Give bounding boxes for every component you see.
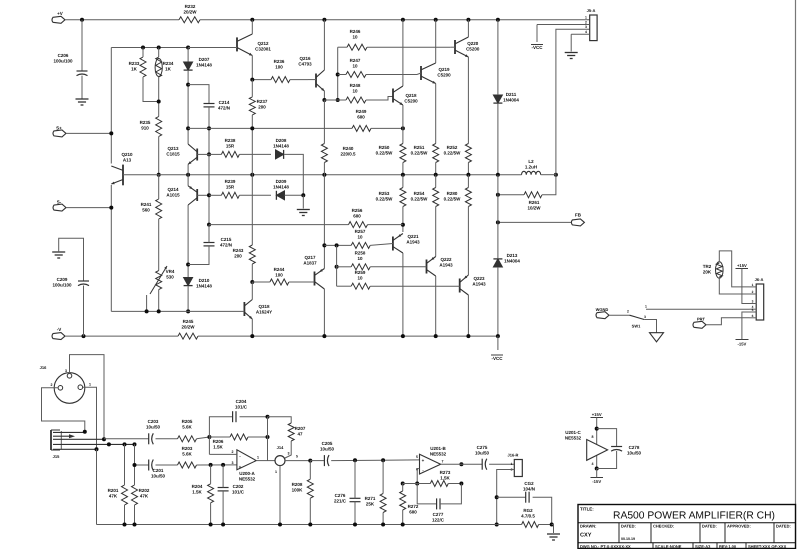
- wire C204 right: [240, 416, 268, 418]
- junction feedback rail: [250, 173, 254, 177]
- junction output rail: [466, 173, 470, 177]
- junction bottom rail: [401, 523, 405, 527]
- svg-text:A1015: A1015: [166, 193, 180, 198]
- resistor R232: [179, 17, 200, 23]
- svg-text:R261: R261: [529, 200, 540, 205]
- wire R248 right: [366, 97, 393, 101]
- svg-text:100K: 100K: [292, 488, 304, 493]
- svg-text:C1815: C1815: [166, 152, 180, 157]
- terminal +V: [52, 16, 65, 23]
- resistor R252: [465, 144, 471, 163]
- connector J15 prong 3: [53, 443, 135, 445]
- junction y48: [157, 46, 161, 50]
- junction R249 row: [401, 126, 405, 130]
- svg-text:+V: +V: [57, 11, 63, 16]
- svg-text:J6-A: J6-A: [755, 277, 764, 282]
- junction -V rail: [434, 334, 438, 338]
- svg-text:1.5K: 1.5K: [440, 476, 450, 481]
- wire -15V J6: [742, 312, 750, 340]
- svg-text:3: 3: [644, 315, 646, 319]
- svg-text:R241: R241: [141, 202, 152, 207]
- wire to ground D209: [302, 195, 304, 208]
- junction J15 area: [123, 442, 127, 446]
- svg-text:C5200: C5200: [466, 47, 480, 52]
- resistor R208: [307, 479, 313, 498]
- resistor R241: [156, 199, 162, 219]
- wire C276 bottom: [354, 502, 356, 525]
- wire SW1 pin1: [646, 308, 750, 310]
- svg-text:D208: D208: [276, 138, 287, 143]
- svg-text:1: 1: [257, 456, 259, 460]
- svg-text:D213: D213: [507, 253, 518, 258]
- junction R206 right: [266, 435, 270, 439]
- svg-text:R232: R232: [185, 4, 196, 9]
- wire VR4 bottom: [158, 290, 160, 312]
- junction S+: [109, 131, 113, 135]
- switch SW1: [630, 315, 645, 319]
- wire fb line: [403, 483, 431, 485]
- svg-text:C278: C278: [629, 445, 640, 450]
- junction output rail: [434, 173, 438, 177]
- capacitor C277: [436, 498, 438, 509]
- junction +V rail: [250, 18, 254, 22]
- svg-text:C203: C203: [148, 419, 159, 424]
- svg-text:47K: 47K: [109, 494, 118, 499]
- svg-text:4.7/0.5: 4.7/0.5: [521, 514, 535, 519]
- transistor Q218: [392, 89, 394, 103]
- wire fb down: [267, 417, 269, 461]
- svg-text:R243: R243: [233, 248, 244, 253]
- resistor R207: [288, 423, 294, 441]
- svg-text:0.22/5W: 0.22/5W: [411, 151, 429, 156]
- wire Q219 base: [417, 73, 421, 75]
- svg-text:C277: C277: [433, 512, 444, 517]
- wire Q210 emitter: [110, 185, 112, 311]
- resistor R254: [433, 188, 439, 207]
- junction Q217 collector tap: [322, 243, 326, 247]
- wire R203 right: [197, 464, 237, 466]
- wire R240 top: [323, 100, 325, 144]
- wire WGND: [609, 314, 630, 316]
- resistor R243: [249, 245, 255, 264]
- resistor R256: [349, 222, 368, 228]
- wire R244 right: [289, 281, 310, 283]
- resistor R272: [400, 491, 406, 510]
- junction J16R: [495, 523, 499, 527]
- svg-text:R246: R246: [350, 29, 361, 34]
- junction base node: [157, 173, 161, 177]
- svg-text:R244: R244: [274, 267, 285, 272]
- junction D209: [301, 193, 305, 197]
- wire feedback rail: [123, 174, 522, 176]
- svg-text:0.22/5W: 0.22/5W: [411, 197, 429, 202]
- svg-text:200: 200: [258, 105, 266, 110]
- title block: [578, 505, 796, 549]
- wire C202 top: [222, 465, 224, 488]
- svg-text:-15V: -15V: [592, 479, 601, 484]
- wire C201-R203: [156, 464, 178, 466]
- wire R243 bottom: [251, 264, 253, 282]
- wire R236 left: [252, 79, 271, 81]
- svg-text:WGND: WGND: [596, 307, 609, 312]
- svg-text:47K: 47K: [140, 494, 149, 499]
- svg-text:20/2W: 20/2W: [181, 325, 195, 330]
- wire Q318 base: [111, 310, 244, 312]
- wire C215 bottom: [188, 246, 209, 265]
- wire RG2 left: [497, 524, 522, 526]
- capacitor C276: [350, 497, 361, 499]
- junction Q214 base: [207, 223, 211, 227]
- connector J6-A: [756, 284, 764, 320]
- svg-text:0.22/5W: 0.22/5W: [376, 151, 394, 156]
- svg-text:1: 1: [275, 470, 277, 474]
- wire pnp ladder h1: [324, 244, 351, 246]
- svg-text:15R: 15R: [226, 144, 235, 149]
- svg-text:-VCC: -VCC: [532, 45, 544, 50]
- connector J15 switch contact: [53, 435, 69, 437]
- wire J16R pin2: [497, 470, 515, 525]
- svg-text:SHEET:XXX OF:XXX: SHEET:XXX OF:XXX: [748, 544, 787, 549]
- svg-text:-V: -V: [57, 327, 62, 332]
- svg-text:10: 10: [357, 235, 363, 240]
- wire Q216 base: [308, 79, 316, 81]
- wire fb to R207: [268, 417, 292, 423]
- op-amp U200-A: [237, 450, 256, 470]
- svg-text:R247: R247: [350, 58, 361, 63]
- svg-text:+: +: [239, 465, 242, 470]
- wire R254 bottom: [435, 207, 437, 257]
- wire R272 top: [402, 484, 404, 492]
- svg-text:472/N: 472/N: [220, 243, 232, 248]
- svg-text:R252: R252: [447, 145, 458, 150]
- svg-text:RA500 POWER AMPLIFIER(R CH): RA500 POWER AMPLIFIER(R CH): [613, 511, 775, 522]
- border right: [795, 0, 797, 549]
- wire Q220 collector: [467, 20, 469, 37]
- svg-text:10/2W: 10/2W: [527, 206, 541, 211]
- diode D208: [276, 150, 284, 159]
- svg-text:C215: C215: [221, 237, 232, 242]
- junction -V rail: [496, 334, 500, 338]
- connector J15 prong 2: [53, 438, 104, 440]
- svg-text:NE5532: NE5532: [430, 452, 447, 457]
- svg-text:A1943: A1943: [472, 282, 486, 287]
- svg-text:R201: R201: [108, 488, 119, 493]
- svg-text:1K: 1K: [131, 67, 138, 72]
- svg-text:10u/50: 10u/50: [320, 447, 335, 452]
- wire Q217 base: [310, 281, 315, 283]
- svg-text:R256: R256: [352, 208, 363, 213]
- connector J5-A: [590, 15, 597, 41]
- svg-text:C275: C275: [477, 445, 488, 450]
- svg-text:C201: C201: [153, 468, 164, 473]
- svg-text:0.22/5W: 0.22/5W: [376, 197, 394, 202]
- wire R239 left: [209, 194, 221, 196]
- ground bottom: [547, 533, 560, 535]
- svg-text:REV:1.00: REV:1.00: [719, 544, 737, 549]
- resistor R261: [524, 192, 542, 198]
- wire Q222 collector: [435, 276, 437, 336]
- junction C201: [133, 463, 137, 467]
- wire R259 left: [337, 285, 352, 287]
- wire R201 top: [124, 444, 126, 485]
- resistor R240: [321, 144, 327, 163]
- svg-text:680: 680: [357, 115, 365, 120]
- wire R247 right: [366, 74, 417, 76]
- junction bias: [157, 100, 161, 104]
- svg-text:10u/50: 10u/50: [627, 451, 642, 456]
- svg-text:J5-A: J5-A: [587, 8, 596, 13]
- resistor R258: [351, 264, 370, 270]
- resistor R234 (with lamp circle): [156, 57, 162, 77]
- svg-text:SIZE:A3: SIZE:A3: [695, 544, 711, 549]
- svg-text:5: 5: [752, 308, 754, 312]
- svg-text:10: 10: [352, 64, 358, 69]
- svg-text:5: 5: [296, 455, 298, 459]
- junction bottom rail: [123, 523, 127, 527]
- junction +V rail: [466, 18, 470, 22]
- wire C206 top: [81, 20, 83, 71]
- svg-text:PRT: PRT: [697, 317, 706, 322]
- junction bottom rail: [209, 523, 213, 527]
- ground C209: [52, 251, 65, 253]
- resistor R257: [351, 242, 370, 248]
- svg-text:00.10.19: 00.10.19: [621, 537, 635, 541]
- junction line2: [353, 458, 357, 462]
- junction C204 right: [266, 415, 270, 419]
- wire J5 pin2 -VCC: [537, 24, 590, 26]
- capacitor C214: [204, 103, 215, 105]
- junction +V rail: [496, 18, 500, 22]
- svg-text:R245: R245: [183, 319, 194, 324]
- wire R208 top: [309, 461, 311, 480]
- svg-text:R236: R236: [274, 59, 285, 64]
- transistor Q212: [236, 37, 238, 51]
- resistor R245: [178, 333, 198, 339]
- svg-text:100u/100: 100u/100: [53, 59, 73, 64]
- svg-text:1: 1: [645, 305, 647, 309]
- junction bias bottom: [145, 309, 149, 313]
- wire pin6 drop: [416, 469, 418, 484]
- svg-text:101/C: 101/C: [232, 490, 245, 495]
- wire +15V: [596, 418, 598, 469]
- svg-text:R206: R206: [213, 439, 224, 444]
- connector J6-A pin 1: [750, 286, 757, 288]
- wire R235 to node: [158, 137, 160, 175]
- svg-text:S-: S-: [57, 200, 62, 205]
- svg-text:10: 10: [352, 35, 358, 40]
- svg-text:U201-B: U201-B: [430, 446, 446, 451]
- svg-text:100u/100: 100u/100: [52, 283, 72, 288]
- svg-text:47: 47: [297, 432, 303, 437]
- wire C278 bottom: [597, 451, 617, 469]
- svg-text:J15: J15: [53, 454, 60, 459]
- wire R272 bottom: [402, 510, 404, 525]
- junction pnp ladder: [335, 243, 339, 247]
- junction J16R: [495, 495, 499, 499]
- wire R246 left: [338, 46, 347, 48]
- connector J16 (XLR): [54, 373, 85, 404]
- svg-text:+15V: +15V: [737, 263, 747, 268]
- wire C203 left: [104, 438, 149, 440]
- wire R204 bottom: [210, 503, 212, 525]
- svg-text:4: 4: [592, 462, 594, 466]
- svg-text:Q210: Q210: [121, 152, 133, 157]
- svg-text:2: 2: [752, 290, 754, 294]
- svg-text:Q221: Q221: [407, 234, 419, 239]
- svg-text:Q218: Q218: [405, 93, 417, 98]
- junction +V rail: [80, 18, 84, 22]
- capacitor C203: [148, 433, 150, 444]
- wire D208 right: [285, 154, 304, 195]
- wire C277 left: [417, 484, 436, 504]
- diode D213: [493, 259, 502, 267]
- junction J14 out: [308, 459, 312, 463]
- junction J15 area: [107, 442, 111, 446]
- wire C214 top: [188, 85, 209, 104]
- svg-text:C32081: C32081: [255, 47, 271, 52]
- transistor Q222: [426, 260, 428, 274]
- wire -VCC stub: [497, 336, 499, 350]
- svg-text:Q223: Q223: [473, 276, 485, 281]
- svg-text:10u/50: 10u/50: [151, 474, 166, 479]
- wire C206 bottom: [81, 76, 83, 99]
- wire FB: [498, 221, 573, 223]
- svg-text:220/0.5: 220/0.5: [340, 152, 356, 157]
- svg-text:2: 2: [232, 450, 234, 454]
- junction Q214 base: [207, 193, 211, 197]
- svg-text:1: 1: [585, 16, 587, 20]
- wire C215 top: [208, 225, 210, 243]
- svg-text:1N4004: 1N4004: [504, 259, 520, 264]
- svg-text:530: 530: [166, 275, 174, 280]
- svg-text:D211: D211: [506, 92, 517, 97]
- resistor R205: [178, 436, 197, 442]
- svg-text:A1624Y: A1624Y: [256, 310, 272, 315]
- junction J15 area: [102, 437, 106, 441]
- svg-text:R240: R240: [343, 146, 354, 151]
- wire C214 bottom: [208, 107, 210, 154]
- wire SW1 pin3: [644, 320, 656, 333]
- wire R280 top: [467, 175, 469, 188]
- capacitor C209: [78, 280, 89, 282]
- svg-text:1: 1: [511, 462, 513, 466]
- junction bias bottom: [157, 309, 161, 313]
- resistor R251: [433, 144, 439, 163]
- svg-text:910: 910: [141, 126, 149, 131]
- transistor Q220: [454, 40, 456, 54]
- wire output U200A: [256, 460, 267, 462]
- resistor R271: [380, 494, 386, 513]
- junction bias bus: [186, 309, 190, 313]
- wire gnd-C209: [59, 238, 84, 281]
- svg-text:1.5K: 1.5K: [213, 445, 223, 450]
- connector J15 prong 4: [53, 448, 97, 450]
- junction C214 bottom: [207, 126, 211, 130]
- wire R246 right: [367, 46, 451, 48]
- wire R261 left: [498, 194, 524, 196]
- junction J15 area: [95, 447, 99, 451]
- junction bottom rail: [308, 523, 312, 527]
- junction y48: [186, 46, 190, 50]
- capacitor CG2: [525, 492, 527, 503]
- svg-text:C4793: C4793: [298, 62, 312, 67]
- wire Q212 collector: [251, 20, 253, 34]
- connector J6-A pin 4: [750, 308, 757, 310]
- inductor L2: [522, 171, 541, 174]
- svg-text:104/N: 104/N: [523, 487, 535, 492]
- wire R280 bottom: [467, 207, 469, 276]
- svg-text:C214: C214: [219, 100, 230, 105]
- junction Q216 emitter node: [322, 98, 326, 102]
- junction bias bus: [186, 263, 190, 267]
- svg-text:NE5532: NE5532: [239, 477, 256, 482]
- svg-text:J16-R: J16-R: [508, 453, 519, 458]
- junction +V rail: [434, 18, 438, 22]
- capacitor C204: [232, 411, 234, 422]
- connector J6-A pin 3: [750, 303, 757, 305]
- junction bottom rail: [381, 523, 385, 527]
- svg-text:Q212: Q212: [257, 41, 269, 46]
- svg-text:1: 1: [89, 383, 91, 387]
- svg-text:Q213: Q213: [167, 146, 179, 151]
- wire Q216 collector: [323, 20, 325, 70]
- svg-text:R207: R207: [295, 426, 306, 431]
- svg-text:+: +: [422, 458, 425, 463]
- junction J15 area: [133, 442, 137, 446]
- diode D209: [276, 191, 284, 200]
- svg-text:Q220: Q220: [467, 41, 479, 46]
- ground SW1 (triangle): [650, 333, 664, 342]
- wire R205 right: [197, 437, 210, 439]
- svg-text:C205: C205: [322, 441, 333, 446]
- op-amp U201-C: [587, 440, 608, 461]
- junction FB: [496, 220, 500, 224]
- wire R237 top: [251, 80, 253, 97]
- capacitor C205: [323, 455, 325, 466]
- ground D208/D209: [297, 209, 310, 211]
- wire S+: [66, 132, 111, 134]
- svg-text:221/C: 221/C: [334, 499, 347, 504]
- wire R240 bottom: [323, 163, 325, 175]
- wire R238-D208: [239, 153, 271, 155]
- wire R251 bottom: [435, 163, 437, 175]
- junction -V rail: [322, 334, 326, 338]
- wire C209 bottom: [83, 286, 85, 337]
- diode D210: [184, 278, 193, 286]
- wire -V rail: [198, 335, 498, 337]
- wire Q213 base: [197, 153, 209, 155]
- wire output to J5: [556, 29, 590, 174]
- wire R241 to VR4: [158, 219, 160, 271]
- svg-text:R235: R235: [140, 120, 151, 125]
- junction feedback rail: [186, 173, 190, 177]
- trimmer VR4: [156, 271, 162, 290]
- svg-text:1N4148: 1N4148: [273, 185, 289, 190]
- trimmer TR2: [716, 263, 722, 277]
- svg-text:TR2: TR2: [703, 264, 712, 269]
- svg-text:R205: R205: [182, 419, 193, 424]
- svg-text:A1837: A1837: [303, 261, 317, 266]
- wire R252 bottom: [467, 163, 469, 175]
- junction bottom rail: [133, 523, 137, 527]
- junction line2: [381, 458, 385, 462]
- wire -V rail left: [65, 335, 178, 337]
- junction y48: [141, 46, 145, 50]
- svg-text:0.22/5W: 0.22/5W: [444, 197, 462, 202]
- wire R256 right: [368, 224, 403, 226]
- transistor Q214: [196, 189, 198, 201]
- svg-text:15R: 15R: [226, 185, 235, 190]
